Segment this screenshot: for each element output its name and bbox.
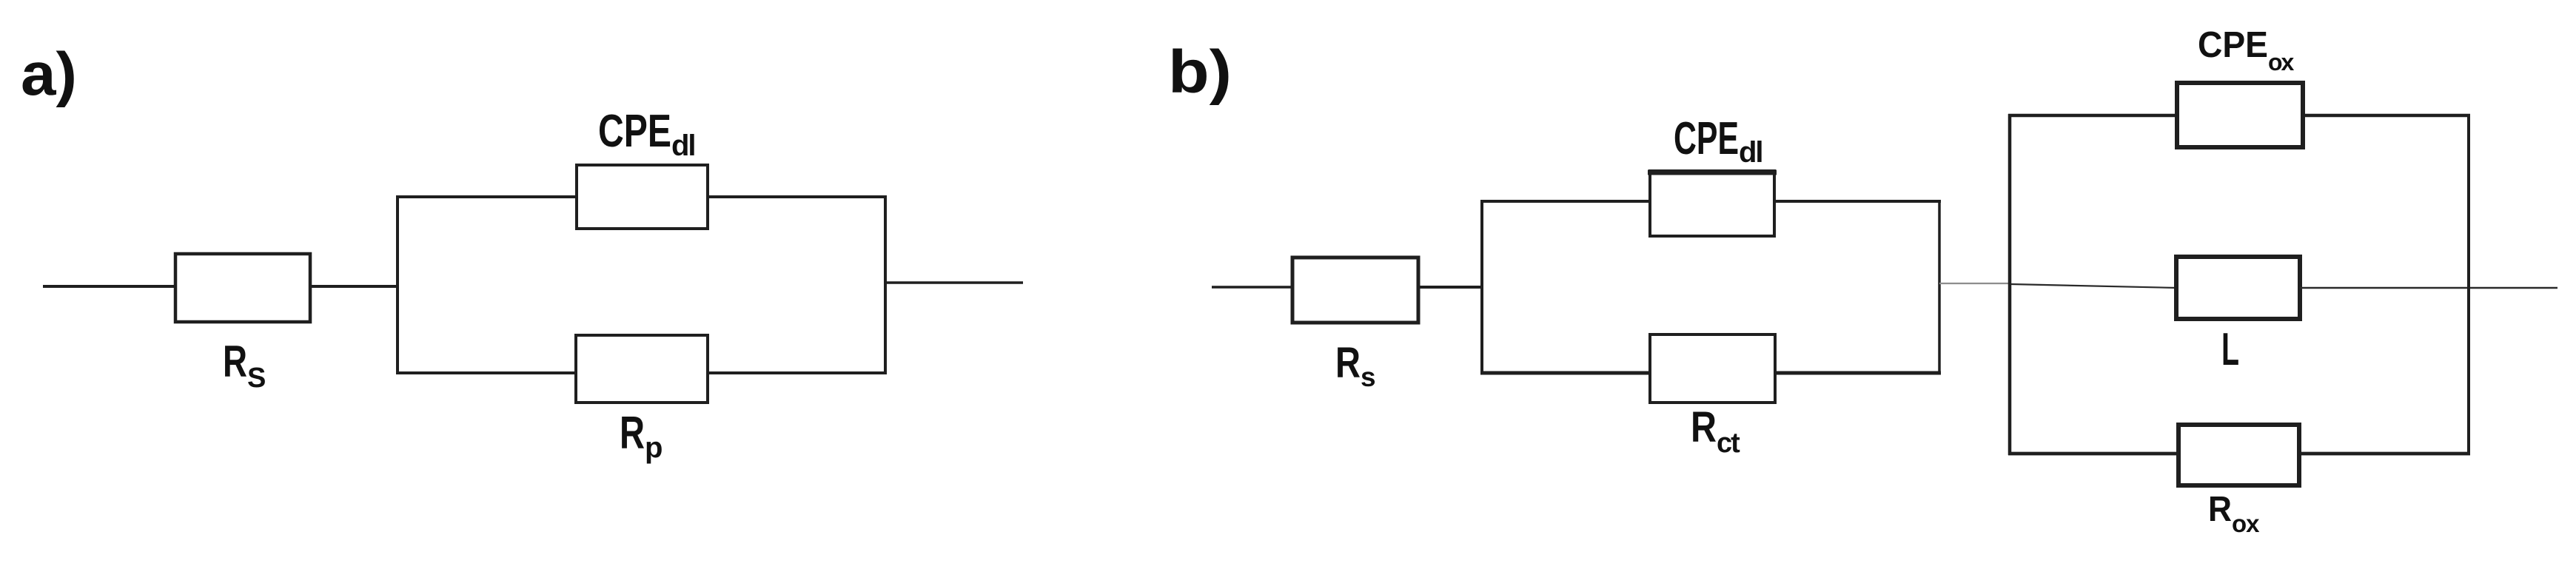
wire middle branch 2 right / output b <box>2300 287 2557 289</box>
wire Rs to node A <box>310 285 399 288</box>
capacitor CPEox (b) <box>2177 83 2303 147</box>
wire left vertical branch 2 (b) <box>2008 114 2012 455</box>
svg-text:b): b) <box>1168 38 1232 106</box>
wire input b <box>1212 286 1294 289</box>
capacitor CPEdl (a) <box>577 165 708 229</box>
wire top branch 1 right (b) <box>1774 200 1941 203</box>
wire bottom branch 1 left (b) <box>1480 371 1651 375</box>
wire bottom branch right (a) <box>708 371 887 374</box>
wire top branch right (a) <box>708 195 887 198</box>
wire bottom branch 2 right (b) <box>2299 452 2470 456</box>
resistor Rs (a) <box>175 254 310 322</box>
wire bottom branch 2 left (b) <box>2008 452 2180 456</box>
wire right vertical branch 1 (b) <box>1938 200 1941 374</box>
wire bottom branch left (a) <box>396 371 577 374</box>
wire left vertical branch 1 (b) <box>1480 200 1483 374</box>
capacitor CPEdl (b) <box>1650 171 1774 236</box>
resistor Rct (b) <box>1650 334 1775 403</box>
resistor Rs (b) <box>1292 258 1418 323</box>
wire top branch 2 right (b) <box>2303 114 2470 118</box>
capacitor CPEdl (b) thick top edge <box>1648 170 1777 175</box>
wire Rs to node B <box>1418 286 1483 289</box>
wire input a <box>43 285 178 288</box>
wire output a <box>885 281 1023 284</box>
svg-text:a): a) <box>21 41 77 108</box>
wire bottom branch 1 right (b) <box>1775 371 1941 375</box>
wire top branch 2 left (b) <box>2008 114 2178 118</box>
wire node B2 connector gray <box>1939 283 2011 284</box>
inductor L (b) <box>2176 257 2300 319</box>
wire top branch 1 left (b) <box>1480 200 1651 203</box>
wire top branch left (a) <box>396 195 578 198</box>
wire connector to L <box>2011 284 2177 288</box>
resistor Rox (b) <box>2178 425 2299 485</box>
svg-text:L: L <box>2221 324 2239 375</box>
wire right vertical branch (a) <box>884 195 887 374</box>
wire left vertical branch (a) <box>396 195 399 374</box>
resistor Rp (a) <box>576 335 708 403</box>
wire right vertical branch 2 (b) <box>2467 114 2470 455</box>
